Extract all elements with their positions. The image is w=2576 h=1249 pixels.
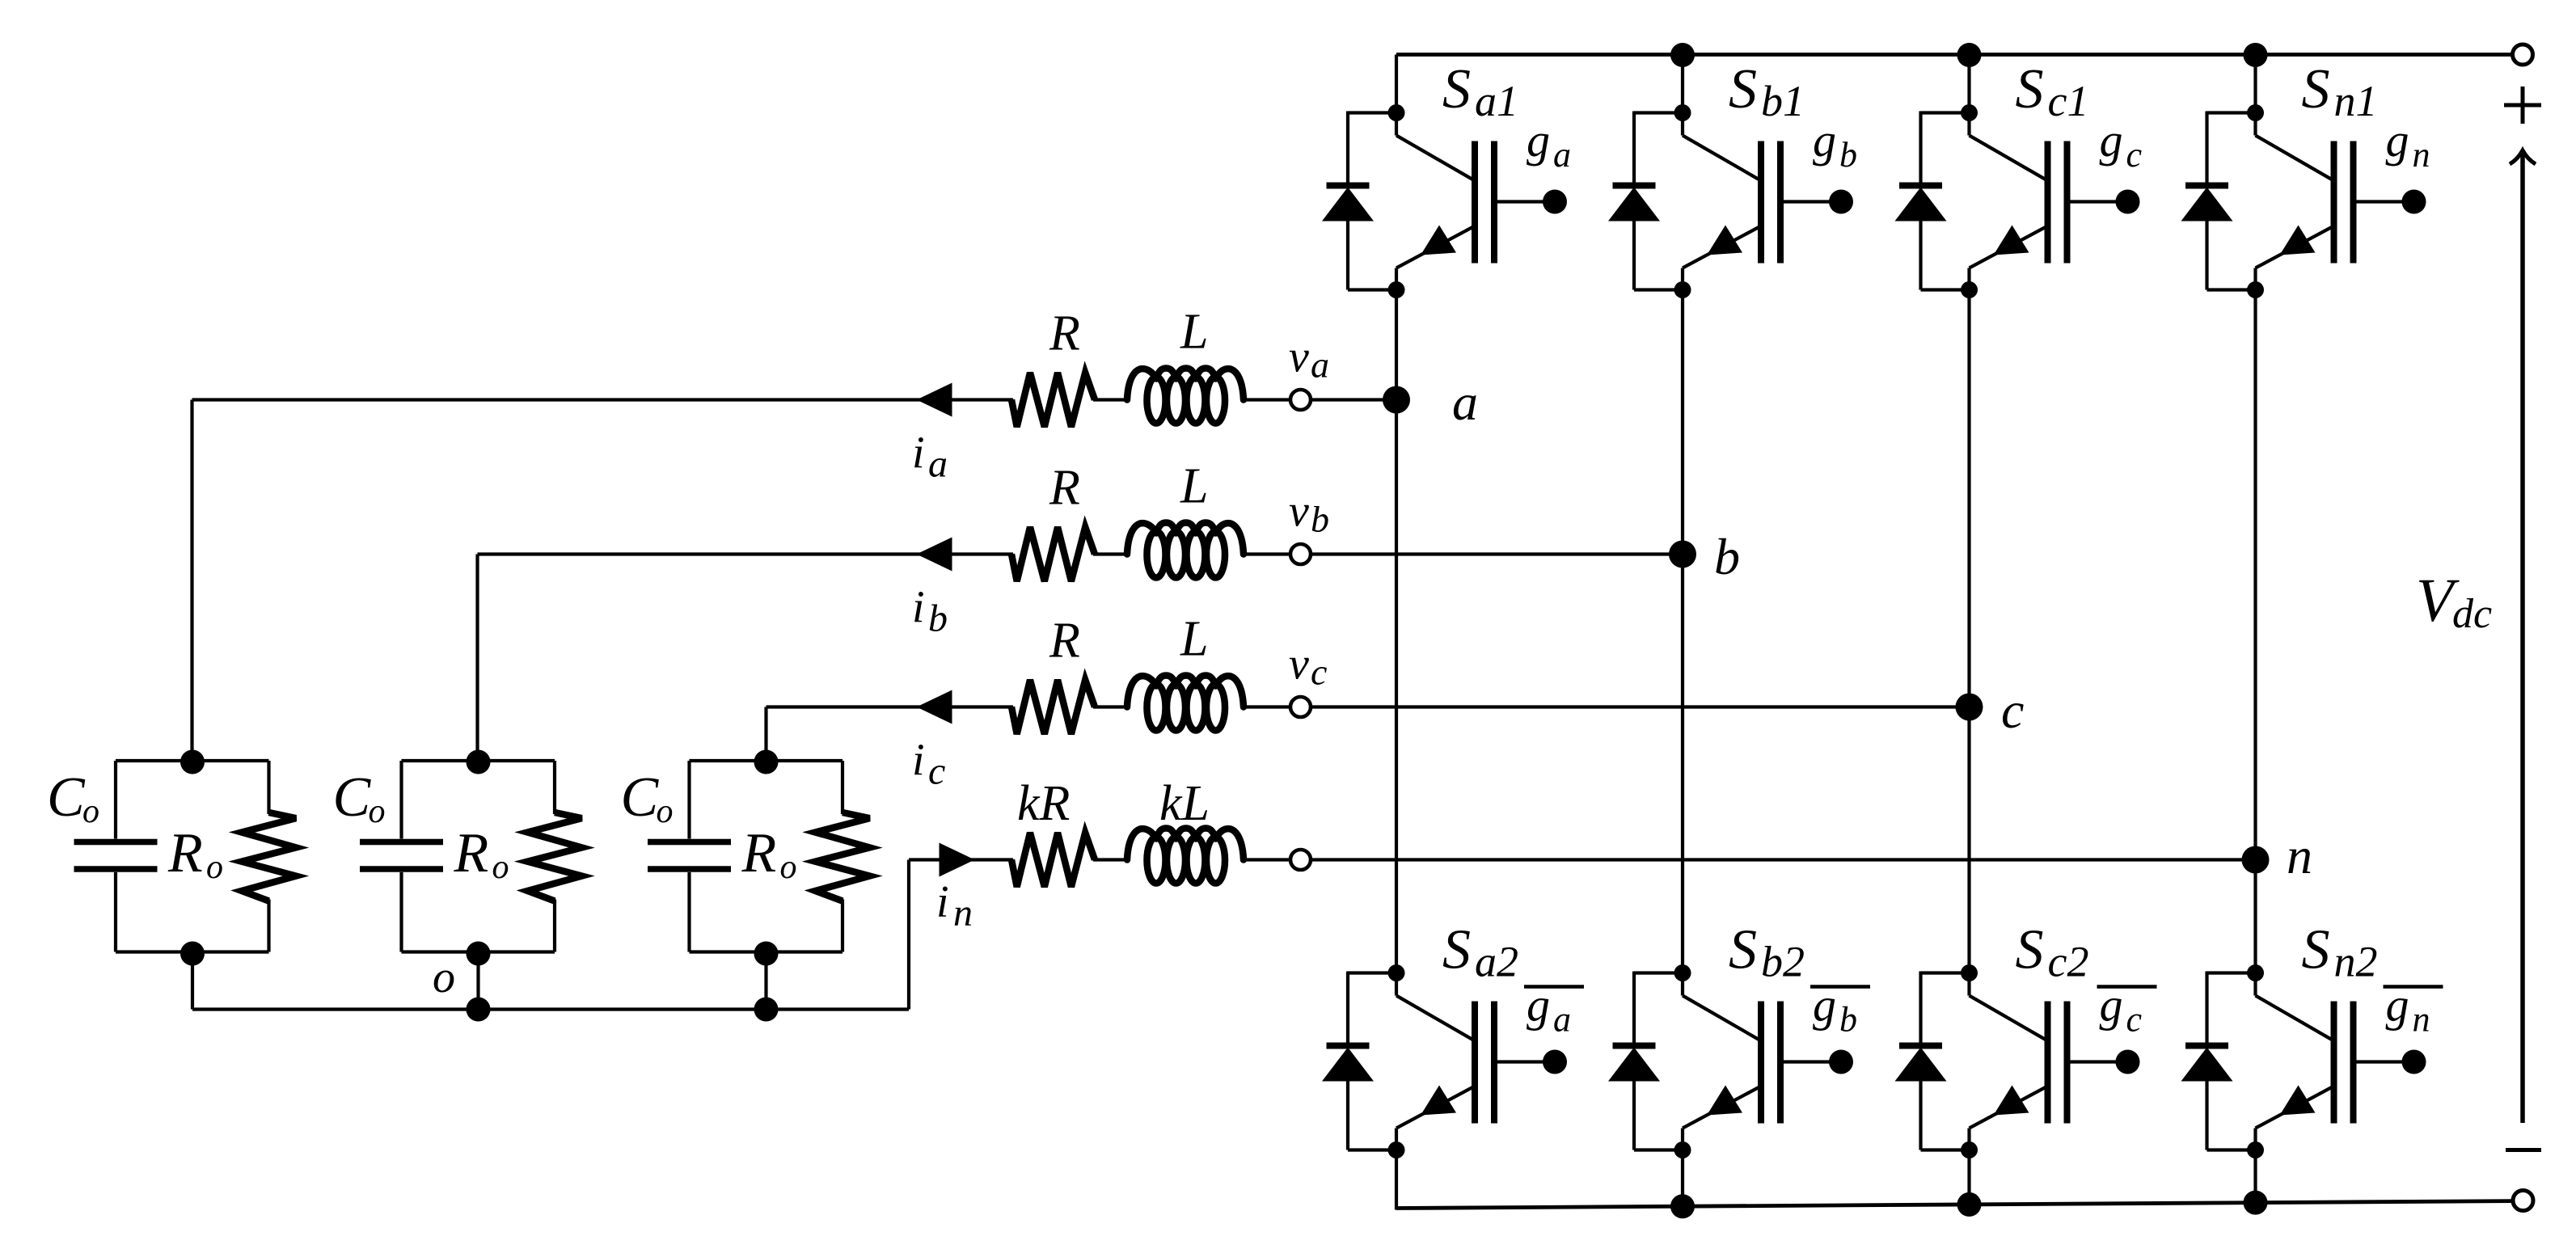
gate wire g of Sn1: [2357, 190, 2426, 214]
svg-text:b: b: [1839, 1000, 1857, 1040]
capacitor Co (load 2): [360, 761, 443, 952]
terminal circle vn: [1290, 850, 1311, 870]
current arrow ic (points left): [917, 690, 952, 724]
resistor R row b: [1011, 527, 1095, 581]
svg-text:R: R: [454, 822, 489, 884]
svg-text:c: c: [1311, 652, 1327, 693]
current arrow ia (points left): [917, 383, 952, 417]
transistor Sa1 body: [1388, 104, 1498, 298]
svg-text:b: b: [1311, 499, 1329, 540]
svg-text:a: a: [1553, 135, 1571, 175]
svg-text:S: S: [1729, 58, 1757, 120]
junction dot top bus / leg b: [1670, 43, 1695, 67]
junction dot top bus / leg n: [2244, 43, 2268, 67]
freewheeling diode of Sa2: [1322, 972, 1396, 1150]
svg-text:R: R: [167, 822, 203, 884]
transistor Sn1 body: [2247, 104, 2357, 298]
capacitor Co (load 1): [74, 761, 158, 952]
wire: row a left feeder down to load 1: [190, 400, 193, 762]
load 3: bottom node dot: [754, 942, 779, 966]
gate wire g of Sc2: [2071, 1050, 2140, 1074]
gate wire g of Sa1: [1497, 190, 1567, 214]
svg-text:o: o: [657, 793, 674, 830]
freewheeling diode of Sc2: [1895, 972, 1970, 1150]
svg-text:o: o: [82, 793, 99, 830]
top DC bus: [1396, 53, 2513, 57]
wire: row b left feeder down to load 2: [475, 555, 479, 762]
load 1: top wire: [116, 759, 269, 762]
wire: leg c bottom (Sc2 emitter to bottom bus): [1967, 1150, 1970, 1206]
wire row n: between R and L: [1093, 858, 1129, 861]
svg-text:S: S: [2302, 919, 2330, 981]
gate wire g of Sb1: [1784, 190, 1853, 214]
svg-text:n: n: [2287, 827, 2312, 884]
resistor Ro (load 1): [242, 761, 296, 952]
wire: leg c top (bus to Sc1 collector): [1967, 55, 1970, 113]
wire: load 2 bottom to o bus: [476, 952, 479, 1010]
junction dot bottom bus / leg b: [1670, 1194, 1695, 1218]
load 2: bottom node dot: [467, 942, 491, 966]
junction dot top bus / leg c: [1957, 43, 1982, 67]
svg-text:R: R: [741, 822, 777, 884]
transistor Sb1 body: [1674, 104, 1784, 298]
resistor kR row n: [1011, 833, 1095, 887]
svg-text:c: c: [2001, 681, 2024, 739]
svg-text:a1: a1: [1475, 77, 1518, 125]
svg-text:S: S: [2302, 58, 2330, 120]
terminal circle va: [1290, 390, 1311, 410]
wire: o bus horizontal: [192, 1007, 909, 1011]
wire row b: terminal to node b: [1311, 552, 1683, 555]
wire row c: L to terminal: [1242, 705, 1290, 708]
wire: row c left feeder down to load 3: [764, 707, 767, 762]
svg-text:b1: b1: [1761, 77, 1805, 125]
svg-text:o: o: [206, 849, 223, 886]
wire: leg n bottom (Sn2 emitter to bottom bus): [2253, 1150, 2257, 1205]
svg-text:a: a: [1452, 373, 1478, 431]
inductor L row c: [1127, 676, 1244, 707]
svg-text:C: C: [333, 766, 372, 829]
wire: leg n top (bus to Sn1 collector): [2253, 55, 2257, 113]
inductor kL row n: [1127, 829, 1244, 860]
transistor Sn2 body: [2247, 964, 2357, 1158]
wire: leg a bottom (Sa2 emitter to bottom bus): [1395, 1150, 1398, 1210]
svg-text:v: v: [1289, 639, 1309, 690]
wire: load 1 bottom to o bus: [191, 952, 194, 1010]
svg-text:n: n: [2413, 135, 2430, 175]
svg-text:v: v: [1289, 332, 1309, 382]
svg-text:C: C: [47, 766, 86, 829]
transistor Sb2 body: [1674, 964, 1784, 1158]
svg-text:b: b: [1839, 135, 1857, 175]
svg-text:i: i: [912, 736, 925, 786]
svg-text:L: L: [1180, 305, 1208, 360]
load 2: top wire: [402, 759, 555, 762]
svg-text:S: S: [2016, 919, 2044, 981]
load 3: top wire: [690, 759, 843, 762]
svg-text:c: c: [2126, 135, 2143, 175]
current arrow in (points right): [940, 843, 975, 877]
resistor Ro (load 2): [528, 761, 582, 952]
svg-text:b2: b2: [1761, 938, 1805, 986]
svg-text:S: S: [2016, 58, 2044, 120]
gate wire g of Sb2: [1784, 1050, 1853, 1074]
svg-text:R: R: [1049, 461, 1080, 516]
wire row c: between R and L: [1093, 705, 1129, 708]
wire row c: terminal to node c: [1311, 705, 1970, 708]
wire row c: left segment: [766, 705, 1014, 708]
node c dot: [1956, 694, 1983, 721]
svg-text:R: R: [1049, 306, 1080, 361]
wire: leg c (node c to Sc2 collector): [1967, 707, 1970, 973]
resistor R row a: [1011, 373, 1095, 427]
svg-text:n1: n1: [2334, 77, 2378, 125]
wire: leg b (node b to Sb2 collector): [1681, 555, 1684, 973]
svg-text:i: i: [936, 877, 949, 927]
freewheeling diode of Sb1: [1608, 112, 1683, 290]
svg-text:i: i: [912, 583, 925, 633]
wire: leg a middle (Sa1 emitter to node a): [1395, 290, 1398, 400]
svg-text:C: C: [621, 766, 660, 829]
wire: leg n middle (Sn1 emitter to node n): [2253, 290, 2257, 860]
gate wire g of Sa2: [1497, 1050, 1567, 1074]
junction dot bottom bus / leg n: [2244, 1191, 2268, 1215]
resistor R row c: [1011, 680, 1095, 734]
current arrow ib (points left): [917, 538, 952, 572]
wire row a: terminal to node a: [1311, 398, 1396, 401]
plus sign: [2504, 87, 2541, 124]
svg-text:dc: dc: [2452, 591, 2492, 637]
svg-text:c: c: [2126, 1000, 2143, 1040]
inductor L row b: [1127, 523, 1244, 555]
svg-text:o: o: [433, 952, 455, 1002]
svg-text:v: v: [1289, 487, 1309, 537]
freewheeling diode of Sn2: [2181, 972, 2256, 1150]
wire: leg b top (bus to Sb1 collector): [1681, 55, 1684, 113]
wire: load 3 bottom to o bus: [764, 952, 767, 1010]
load 1: bottom wire: [116, 950, 269, 953]
freewheeling diode of Sn1: [2181, 112, 2256, 290]
junction dot o (load 2): [467, 998, 491, 1022]
wire row a: left segment: [192, 398, 1014, 401]
wire: leg a (node a to Sa2 collector): [1395, 400, 1398, 973]
svg-text:R: R: [1049, 614, 1080, 669]
svg-text:c1: c1: [2048, 77, 2089, 125]
wire: leg a top (bus to Sa1 collector): [1395, 55, 1398, 113]
transistor Sc1 body: [1961, 104, 2071, 298]
svg-text:g: g: [1527, 114, 1550, 167]
capacitor Co (load 3): [648, 761, 731, 952]
terminal circle vb: [1290, 544, 1311, 564]
svg-text:a: a: [928, 443, 948, 486]
wire: leg c middle (Sc1 emitter to node c): [1967, 290, 1970, 707]
resistor Ro (load 3): [816, 761, 870, 952]
node a dot: [1383, 386, 1410, 414]
gate wire g of Sc1: [2071, 190, 2140, 214]
wire row n: L to terminal: [1242, 858, 1290, 861]
svg-text:S: S: [1729, 919, 1757, 981]
svg-text:g: g: [2386, 114, 2409, 167]
svg-text:i: i: [912, 428, 925, 479]
svg-text:b: b: [928, 597, 948, 640]
svg-text:a: a: [1553, 1000, 1571, 1040]
wire row n: left segment: [909, 858, 1013, 861]
wire row b: L to terminal: [1242, 552, 1290, 555]
svg-text:a2: a2: [1475, 938, 1518, 986]
freewheeling diode of Sa1: [1322, 112, 1396, 290]
svg-text:o: o: [369, 793, 386, 830]
load 1: top node dot: [180, 750, 205, 774]
svg-text:S: S: [1442, 58, 1471, 120]
freewheeling diode of Sc1: [1895, 112, 1970, 290]
svg-text:c: c: [928, 750, 945, 793]
svg-text:kR: kR: [1017, 776, 1070, 831]
terminal circle vc: [1290, 697, 1311, 717]
freewheeling diode of Sb2: [1608, 972, 1683, 1150]
DC+ terminal circle: [2513, 44, 2533, 65]
svg-text:g: g: [2100, 114, 2123, 167]
bottom DC bus: [1396, 1201, 2513, 1209]
minus sign: [2506, 1148, 2541, 1152]
load 3: top node dot: [754, 750, 779, 774]
svg-text:o: o: [780, 849, 797, 886]
transistor Sa2 body: [1388, 964, 1498, 1158]
inductor L row a: [1127, 369, 1244, 400]
svg-text:L: L: [1180, 612, 1208, 667]
svg-text:a: a: [1311, 344, 1329, 386]
junction dot o bus / load 3: [754, 998, 779, 1022]
wire: o bus up to row n: [907, 860, 910, 1010]
gate wire g of Sn2: [2357, 1050, 2426, 1074]
Vdc arrow: [2510, 150, 2536, 1123]
svg-text:L: L: [1180, 459, 1208, 514]
svg-text:S: S: [1442, 919, 1471, 981]
wire: leg b middle (Sb1 emitter to node b): [1681, 290, 1684, 555]
wire: leg n (node n to Sn2 collector): [2253, 860, 2257, 973]
svg-text:n: n: [953, 892, 973, 935]
junction dot bottom bus / leg c: [1957, 1192, 1982, 1217]
node b dot: [1669, 541, 1696, 568]
load 1: bottom node dot: [180, 942, 205, 966]
wire row n: terminal to node n: [1311, 858, 2256, 861]
svg-text:kL: kL: [1159, 776, 1210, 831]
load 2: top node dot: [467, 750, 491, 774]
svg-text:o: o: [492, 849, 509, 886]
svg-text:b: b: [1714, 528, 1740, 585]
svg-text:n: n: [2413, 1000, 2430, 1040]
wire row a: between R and L: [1093, 398, 1129, 401]
transistor Sc2 body: [1961, 964, 2071, 1158]
svg-text:c2: c2: [2048, 938, 2089, 986]
wire row a: L to terminal: [1242, 398, 1290, 401]
node n dot: [2242, 846, 2270, 874]
DC- terminal circle: [2513, 1191, 2533, 1211]
wire row b: between R and L: [1093, 552, 1129, 555]
svg-text:n2: n2: [2334, 938, 2378, 986]
svg-text:g: g: [1813, 114, 1836, 167]
wire: leg b bottom (Sb2 emitter to bottom bus): [1681, 1150, 1684, 1209]
load 2: bottom wire: [402, 950, 555, 953]
load 3: bottom wire: [690, 950, 843, 953]
wire row b: left segment: [478, 552, 1014, 555]
